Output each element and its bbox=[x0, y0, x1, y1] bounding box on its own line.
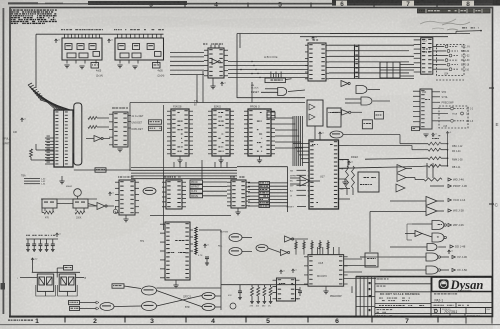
gate 1/2 U20 bbox=[256, 245, 268, 252]
label RETRO bbox=[69, 301, 80, 305]
IC U14 bbox=[420, 89, 432, 129]
IC U18 bbox=[308, 255, 344, 287]
gate 1/3 U15C bbox=[100, 303, 114, 311]
pencil marks bbox=[442, 22, 470, 30]
inverter U21A bbox=[415, 231, 422, 237]
inverter U20B bbox=[281, 250, 288, 256]
capacitor C6 bbox=[52, 239, 54, 244]
power +5 bbox=[319, 132, 321, 136]
wire to frame bbox=[455, 31, 457, 33]
latch 74S74 bbox=[265, 78, 285, 83]
IC U8 bbox=[306, 40, 309, 41]
AND gate U6C bbox=[356, 86, 367, 94]
section boundary bbox=[237, 166, 288, 168]
driver 7438 A bbox=[426, 253, 438, 261]
wire bbox=[426, 163, 428, 178]
drawn row bbox=[377, 308, 380, 311]
IC U13 bbox=[421, 38, 433, 74]
wire bbox=[30, 157, 32, 160]
gate row DD bbox=[427, 244, 437, 251]
wire bbox=[251, 82, 253, 103]
power +5 bbox=[312, 37, 314, 41]
bus into U17 bbox=[293, 143, 309, 145]
wire bbox=[343, 134, 400, 136]
power +5 bbox=[109, 192, 111, 196]
ground bbox=[123, 218, 128, 220]
wire bbox=[370, 211, 426, 213]
gate 1/3 U15B bbox=[142, 302, 157, 311]
connector J1 bbox=[54, 110, 73, 167]
output row BB J-34 bbox=[433, 50, 446, 52]
box PE bbox=[375, 112, 384, 120]
osc stage 2 bbox=[73, 199, 88, 208]
power +5 bbox=[56, 233, 58, 237]
wire bbox=[76, 276, 84, 278]
material cell bbox=[377, 278, 380, 281]
top stubs U18 bbox=[311, 247, 313, 255]
net label PPM2 bbox=[259, 188, 270, 191]
bus strip U11 bbox=[354, 45, 356, 79]
power +5 rail bbox=[447, 132, 449, 136]
capacitor C3 bbox=[33, 239, 35, 244]
inverter U6A bbox=[341, 81, 348, 87]
IC U16 bbox=[165, 222, 190, 280]
resistor ladder bbox=[190, 229, 193, 231]
op-amp A2 bbox=[397, 174, 406, 182]
component box U1A bbox=[91, 63, 99, 69]
components above U18 bbox=[295, 240, 297, 255]
title cell text bbox=[434, 293, 436, 294]
wire bbox=[195, 233, 197, 255]
ground bbox=[423, 133, 428, 135]
dashed line bbox=[436, 79, 464, 81]
wire bbox=[221, 284, 308, 286]
boxed label REC bbox=[412, 127, 420, 131]
output WD J-4 bbox=[432, 113, 448, 115]
output PRECOMP bbox=[432, 101, 440, 103]
capacitor C5 bbox=[46, 239, 48, 244]
label RETRO2 bbox=[112, 284, 124, 288]
box U10B bbox=[327, 108, 341, 127]
bus taps to latch bbox=[270, 72, 272, 79]
ground bbox=[177, 159, 182, 161]
output row J-6 bbox=[432, 120, 450, 122]
ground bbox=[79, 65, 84, 67]
wire bbox=[20, 276, 37, 278]
ground bbox=[218, 159, 223, 161]
dashed box U24 bbox=[437, 45, 465, 76]
revision table bbox=[418, 9, 491, 13]
title block bbox=[356, 276, 492, 278]
output STR bbox=[432, 91, 440, 93]
component box U2A bbox=[153, 63, 161, 69]
osc stage 1 bbox=[42, 199, 57, 208]
wire fan bbox=[28, 85, 56, 110]
driver 7438 B bbox=[426, 266, 438, 274]
wire bbox=[196, 75, 198, 103]
power +5 bbox=[55, 39, 57, 43]
wire bbox=[406, 168, 412, 170]
label WTRG bbox=[70, 307, 80, 311]
latch box U6E bbox=[362, 120, 372, 129]
ground bbox=[59, 180, 64, 182]
box U20 bbox=[358, 172, 379, 192]
resistor pack RP1 bbox=[61, 29, 63, 30]
power +5 pullup bbox=[21, 118, 23, 122]
gate RDY bbox=[330, 131, 343, 138]
ground bbox=[132, 65, 137, 67]
output row ADC J-9 bbox=[433, 45, 444, 47]
crystal divider grid bbox=[380, 62, 400, 78]
enclosure boundary bbox=[237, 33, 470, 35]
size cell bbox=[440, 308, 442, 314]
box U21 bbox=[365, 253, 378, 267]
driver 7406 B bbox=[432, 233, 444, 242]
wire rows right of U17 bbox=[339, 159, 349, 161]
wire bbox=[300, 36, 448, 38]
wire bbox=[36, 149, 54, 151]
net label DRSEL bbox=[95, 168, 106, 172]
node B bbox=[113, 209, 117, 213]
gate A3 bbox=[396, 184, 405, 192]
wire bus to U8 bbox=[228, 61, 308, 63]
output row FF J-16 bbox=[433, 68, 448, 70]
label C+ DET bbox=[128, 115, 131, 117]
net label PPM1 bbox=[259, 185, 270, 188]
net feed JB bbox=[56, 268, 58, 277]
AND gate U6D bbox=[361, 97, 372, 105]
op-amp VCO2 bbox=[426, 207, 437, 216]
op-amp mid bbox=[300, 176, 310, 186]
transistor Q1 bbox=[74, 189, 82, 197]
Dysan banner bbox=[432, 277, 492, 291]
gate RDTMG bbox=[229, 234, 242, 242]
IC U9 bbox=[230, 177, 232, 178]
wire bbox=[35, 34, 37, 88]
resistor 47K bbox=[44, 208, 46, 211]
label UNS DET bbox=[128, 121, 131, 123]
label PROTECT bbox=[448, 184, 451, 187]
ground bbox=[117, 148, 122, 150]
inverter U4F bbox=[94, 136, 101, 142]
op-amp VCO1 bbox=[426, 197, 437, 206]
output SYN bbox=[432, 96, 440, 98]
data bus vertical bbox=[292, 116, 294, 166]
gate 1/3 U15A bbox=[142, 286, 157, 295]
gate 1/10 U14A bbox=[202, 293, 215, 300]
ground bbox=[210, 85, 215, 87]
oscillator rail bbox=[41, 198, 97, 200]
driver 7406 A bbox=[432, 221, 444, 230]
capacitor C30 bbox=[238, 290, 242, 292]
wire vertical bbox=[220, 230, 222, 310]
wire bbox=[365, 158, 428, 159]
cap C20 bbox=[205, 256, 209, 258]
IC U5 bbox=[164, 177, 166, 178]
notes text bbox=[11, 9, 12, 10]
ground bbox=[257, 159, 262, 161]
inverter U1C bbox=[97, 203, 105, 210]
ground bbox=[173, 284, 178, 286]
ground bbox=[117, 64, 122, 66]
power +5 bbox=[448, 250, 450, 254]
resistor pack RP2 bbox=[114, 29, 115, 30]
resistor RB row2 bbox=[424, 178, 442, 181]
net label PPM3 bbox=[259, 191, 270, 194]
ribbon strip bbox=[74, 103, 82, 165]
label DWN DET bbox=[128, 127, 131, 129]
boundary bottom bbox=[237, 97, 305, 99]
IC U3 bbox=[118, 177, 119, 178]
wire bbox=[74, 169, 131, 171]
dashed box U15 bbox=[439, 106, 468, 128]
ground bbox=[235, 211, 240, 213]
power +5 bbox=[292, 269, 294, 273]
IC U19 bbox=[277, 278, 296, 301]
power +5 bbox=[432, 133, 434, 137]
power +5 bbox=[204, 244, 206, 248]
label RN1 bbox=[432, 135, 434, 136]
output row EE J-18 bbox=[433, 64, 446, 66]
capacitor C4 bbox=[39, 239, 41, 244]
head driver cell Q3 bbox=[37, 274, 53, 291]
wire bus bbox=[170, 52, 204, 54]
power +5 bbox=[108, 39, 110, 43]
transistor Q5 bbox=[230, 303, 236, 309]
wire bbox=[201, 160, 203, 179]
wire cross bbox=[157, 291, 203, 307]
boundary line bbox=[130, 102, 305, 104]
address bus bbox=[131, 167, 237, 169]
ground bbox=[323, 290, 328, 292]
flipflop box bbox=[307, 100, 323, 126]
net labels between U5 U9 bbox=[190, 180, 203, 184]
IC U17 bbox=[309, 140, 339, 209]
wire rail bbox=[36, 33, 164, 35]
finish cell bbox=[377, 285, 380, 288]
resistor R3 10K bbox=[88, 117, 97, 120]
net label PPM0 bbox=[259, 182, 270, 185]
output row CC J-32 bbox=[433, 55, 448, 57]
net label PPM7 bbox=[259, 205, 270, 208]
wire bbox=[339, 145, 413, 147]
resistor R4 10K bbox=[88, 126, 97, 129]
net label PPM5 bbox=[259, 198, 270, 201]
gate RD+ bbox=[229, 248, 242, 256]
net label PPM6 bbox=[259, 201, 270, 204]
wire bbox=[314, 126, 316, 139]
bus taps bbox=[173, 162, 175, 168]
wire bbox=[330, 33, 456, 35]
capacitor 4.7uF bbox=[298, 290, 302, 292]
power +5 bbox=[221, 82, 223, 86]
power +5 bbox=[280, 270, 282, 274]
output HS J-2 bbox=[432, 108, 450, 110]
output row DD J-30 bbox=[433, 59, 444, 61]
capacitor C2 bbox=[27, 239, 29, 244]
title block grid bbox=[430, 277, 432, 317]
driver rail +12 bbox=[32, 258, 34, 262]
approval row bbox=[434, 304, 437, 307]
head driver cell Q4 bbox=[59, 274, 75, 291]
resistor network RN3 bbox=[348, 161, 350, 165]
op-amp A1 bbox=[397, 165, 406, 173]
ground bbox=[342, 181, 347, 183]
resistor bank lower bbox=[251, 285, 253, 287]
wire bbox=[344, 258, 362, 260]
AND gate U6B bbox=[278, 88, 287, 96]
wire feedback bbox=[407, 224, 412, 240]
power filter rail bbox=[26, 238, 58, 240]
IC U7 bbox=[203, 44, 205, 45]
gate 1/2 U3 bbox=[143, 188, 156, 195]
resistor 100K bbox=[75, 208, 77, 211]
latch U12B bbox=[267, 112, 275, 118]
ground bbox=[64, 64, 69, 66]
Dysan logo mark bbox=[439, 279, 449, 289]
wire bbox=[150, 215, 231, 217]
resistor network RN1 bbox=[428, 142, 441, 145]
net label PPM4 bbox=[259, 195, 270, 198]
gate 1/10 U14B bbox=[202, 304, 215, 311]
inverter U2C bbox=[342, 110, 349, 116]
wire bbox=[239, 34, 241, 49]
inverter U20C bbox=[285, 236, 292, 242]
IC U4 bbox=[112, 108, 115, 109]
wire bus U8 outputs bbox=[329, 44, 414, 46]
